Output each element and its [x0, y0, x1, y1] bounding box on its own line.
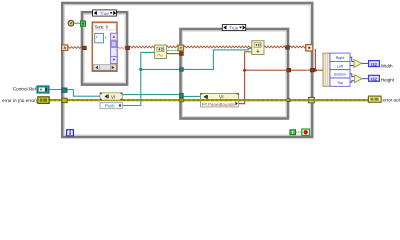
junction J1 on riser: [243, 69, 246, 72]
svg-text:error out: error out: [383, 97, 400, 102]
svg-text:FP.PanelBounds: FP.PanelBounds: [202, 102, 236, 107]
case2 left teal tunnel (S wire): [180, 68, 184, 72]
junction J3 teal: [139, 68, 142, 71]
indicator Width: [369, 61, 380, 67]
loop right rope tunnel: [306, 45, 313, 51]
svg-text:Height: Height: [381, 77, 395, 82]
pale rope inside case1 from frame to tunnel: [118, 47, 126, 49]
node N1 (open obj ref): [155, 45, 167, 59]
rope case1 to node N1: [129, 46, 154, 48]
path wire riser (teal): [122, 52, 181, 105]
property node FP.PanelBounds: [201, 93, 239, 107]
svg-text:Right: Right: [336, 56, 345, 60]
case1 right rope tunnel: [126, 46, 130, 50]
case structure C2 border: [181, 29, 289, 119]
iteration terminal i: [67, 130, 74, 136]
case2 right rope tunnel: [286, 46, 290, 50]
indicator Height: [369, 75, 380, 81]
wires unbundle to subtract: [350, 57, 369, 82]
case structure C1 border: [82, 12, 127, 84]
loop condition stop terminal: [302, 129, 310, 135]
control ref teal wire: [49, 90, 100, 97]
svg-text:I32: I32: [371, 62, 377, 67]
olive wire overlay over property node: [183, 99, 368, 101]
case C2 selector label True: [222, 24, 245, 30]
boolean wire to stop: [296, 131, 302, 133]
subtract S2: [354, 75, 362, 83]
svg-text:I32: I32: [371, 77, 377, 82]
control ref terminal: [37, 86, 49, 93]
error out terminal: [368, 96, 381, 102]
VI node (open vi reference): [100, 93, 122, 100]
svg-text:Size: 0: Size: 0: [95, 24, 109, 29]
svg-text:True: True: [100, 11, 110, 16]
rope N1 to case2 tunnel: [167, 46, 179, 48]
rust solid wires: [167, 49, 324, 104]
case2 left teal tunnel (vi ref): [180, 93, 184, 98]
teal wire inside case2 S-route to node N2: [183, 49, 252, 70]
rope inside case2 to N2: [184, 46, 252, 48]
junction J2 outside loop: [314, 69, 317, 72]
case2 left olive tunnel: [180, 98, 184, 102]
case2 right rust tunnel on branch: [287, 68, 291, 72]
horizontal scrollbar: [93, 65, 116, 71]
case1 selector tunnel (green): [81, 21, 86, 26]
loop right olive tunnel: [309, 97, 315, 102]
outside drop from rope tunnel: [314, 49, 316, 70]
svg-text:T: T: [291, 130, 294, 135]
vertical scrollbar (purple): [111, 33, 118, 63]
element teal box: [95, 34, 104, 43]
svg-text:error in (no error): error in (no error): [2, 98, 37, 103]
svg-text:Left: Left: [337, 64, 343, 68]
svg-text:Control Ref: Control Ref: [13, 87, 37, 92]
Size:0 array frame inside case1: [92, 22, 117, 71]
node N1 rust output: [167, 53, 182, 55]
case2 left path tunnel (green filled): [178, 45, 184, 51]
svg-text:Bottom: Bottom: [334, 73, 346, 77]
subtract S1: [354, 59, 362, 67]
node N2 (to more specific): [252, 41, 264, 55]
svg-text:+: +: [104, 36, 106, 40]
svg-text:Top: Top: [337, 81, 343, 85]
vi reference teal wire to case2: [122, 94, 181, 96]
case2 right olive tunnel: [287, 99, 291, 102]
clock node (boolean source): [68, 20, 74, 26]
while loop W1 border: [62, 3, 312, 137]
svg-text:VI: VI: [111, 94, 115, 99]
svg-text:Path: Path: [105, 104, 115, 109]
case C1 selector label True: [93, 10, 117, 16]
path (sage) wire from N1: [167, 49, 180, 51]
loop right rust tunnel on branch: [310, 68, 314, 72]
True constant T: [290, 130, 296, 135]
loop left teal tunnel (control ref): [62, 88, 67, 93]
FP.PanelBounds output riser: [239, 52, 252, 104]
svg-text:True: True: [229, 25, 239, 30]
error wire (olive) base: [49, 99, 368, 101]
error in terminal: [38, 97, 49, 104]
case1 left rope tunnel: [83, 46, 87, 50]
cluster rope wire zigzag: loop SR to case1: [68, 46, 306, 48]
svg-text:1: 1: [96, 35, 98, 39]
Path constant: [100, 103, 122, 109]
green boolean wire: [74, 22, 80, 24]
rope N2 to loop right tunnel: [264, 46, 306, 48]
case2 left rust tunnel: [180, 52, 184, 56]
teal branch wire to case2: [141, 68, 181, 70]
unbundle by name UB1: [323, 53, 350, 86]
svg-text:Width: Width: [381, 63, 393, 68]
loop left olive tunnel: [62, 98, 67, 103]
teal wire inside case2 to property node: [183, 95, 201, 97]
loop-left shift register (rope): [62, 45, 68, 51]
branch to unbundle: [245, 69, 324, 71]
